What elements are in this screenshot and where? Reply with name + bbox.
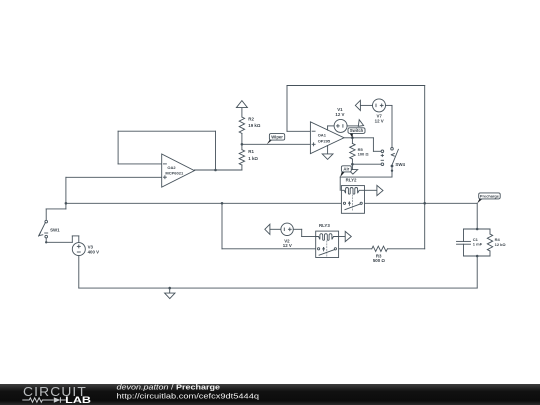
ground xyxy=(168,287,171,290)
switch SW1 xyxy=(45,220,48,223)
svg-text:19 kΩ: 19 kΩ xyxy=(248,123,261,128)
label Air xyxy=(340,172,345,177)
node junction xyxy=(423,202,426,205)
wire xyxy=(287,130,310,132)
wire xyxy=(194,169,242,171)
flag node xyxy=(377,185,383,195)
svg-text:500 Ω: 500 Ω xyxy=(373,258,386,263)
wire xyxy=(387,248,424,250)
wire xyxy=(386,104,393,106)
wire xyxy=(270,228,281,230)
svg-text:R2: R2 xyxy=(248,116,254,121)
wire xyxy=(327,126,329,130)
switch SW4 xyxy=(391,148,394,151)
wire xyxy=(391,167,393,177)
wire xyxy=(221,203,223,249)
svg-text:R1: R1 xyxy=(248,149,254,154)
flag node V7 xyxy=(355,100,360,110)
svg-text:SW1: SW1 xyxy=(50,227,60,232)
label Precharge xyxy=(477,199,482,204)
node junction xyxy=(476,228,479,231)
wire xyxy=(66,176,162,178)
svg-text:SW4: SW4 xyxy=(395,162,405,167)
wire xyxy=(360,104,372,106)
svg-text:12 V: 12 V xyxy=(375,119,384,124)
voltage source V1 xyxy=(334,119,347,132)
flag node Air xyxy=(351,164,353,169)
svg-text:MCP6021: MCP6021 xyxy=(165,171,184,176)
svg-text:http://circuitlab.com/cefcx9dt: http://circuitlab.com/cefcx9dt5444q xyxy=(117,393,260,401)
svg-text:Wiper: Wiper xyxy=(271,135,283,140)
svg-text:12 V: 12 V xyxy=(335,112,344,117)
svg-text:LAB: LAB xyxy=(65,395,91,405)
resistor R5 xyxy=(351,138,353,144)
wire xyxy=(286,86,288,132)
footer bar xyxy=(0,384,540,405)
wire xyxy=(65,203,67,209)
ground xyxy=(327,146,329,154)
op-amp OA1 xyxy=(310,122,344,154)
power flag VCC xyxy=(241,108,243,117)
logo CircuitLab xyxy=(23,384,91,405)
svg-text:RLY3: RLY3 xyxy=(319,223,330,228)
node junction xyxy=(476,255,479,258)
label Wiper xyxy=(267,139,273,144)
svg-text:Precharge: Precharge xyxy=(480,193,500,198)
wire main line xyxy=(362,202,477,204)
voltage source V3 xyxy=(72,243,85,256)
wire xyxy=(337,248,372,250)
node junction xyxy=(351,163,354,166)
wire Wiper net xyxy=(242,143,311,145)
wire xyxy=(45,238,47,242)
resistor R4 xyxy=(489,229,491,234)
flag node Switch xyxy=(358,120,363,127)
wire xyxy=(365,189,377,191)
svg-text:Air: Air xyxy=(343,166,349,171)
node junction xyxy=(351,137,354,140)
wire xyxy=(352,137,373,139)
wire xyxy=(293,228,301,230)
node junction xyxy=(241,143,244,146)
svg-text:OA1: OA1 xyxy=(318,132,327,137)
svg-text:OA2: OA2 xyxy=(167,165,176,170)
node junction xyxy=(221,202,224,205)
svg-text:1 kΩ: 1 kΩ xyxy=(248,156,258,161)
svg-text:OP295: OP295 xyxy=(318,138,331,143)
wire xyxy=(352,163,381,165)
voltage source V2 xyxy=(281,223,293,235)
svg-text:400 V: 400 V xyxy=(88,249,100,254)
wire xyxy=(339,236,346,238)
flag node xyxy=(345,231,351,241)
wire xyxy=(347,125,358,127)
label Switch xyxy=(350,133,353,138)
voltage source V7 xyxy=(373,99,386,112)
footer text xyxy=(117,384,260,401)
svg-text:12 kΩ: 12 kΩ xyxy=(495,242,507,247)
svg-text:1 mF: 1 mF xyxy=(473,242,483,247)
resistor R3 xyxy=(372,246,388,251)
wire OA1 output xyxy=(344,137,352,139)
flag node V2 xyxy=(265,224,270,234)
resistor R1 xyxy=(241,144,243,149)
wire feedback xyxy=(215,131,217,170)
capacitor C1 xyxy=(463,229,465,241)
op-amp OA2 xyxy=(162,154,195,187)
svg-text:V7: V7 xyxy=(377,113,383,118)
svg-text:RLY2: RLY2 xyxy=(346,178,357,183)
node junction xyxy=(65,202,68,205)
wire xyxy=(464,228,491,230)
logo diode xyxy=(54,397,61,403)
node junction xyxy=(214,169,217,172)
svg-text:100 Ω: 100 Ω xyxy=(358,151,370,156)
wire bottom bus xyxy=(78,256,80,289)
svg-text:12 V: 12 V xyxy=(283,243,292,248)
wire main line xyxy=(66,202,344,204)
wire xyxy=(424,203,426,249)
svg-text:Switch: Switch xyxy=(350,128,364,133)
node xyxy=(45,241,47,243)
resistor R2 xyxy=(239,117,244,133)
svg-text:devon.patton / Precharge: devon.patton / Precharge xyxy=(117,384,221,392)
